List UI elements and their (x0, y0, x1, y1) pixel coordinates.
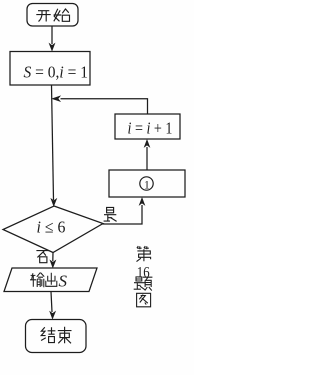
wire init->decision (main vertical) (52, 85, 54, 200)
label 开始 text strokes (36, 9, 69, 22)
arrowhead up into circled1 box (139, 198, 144, 205)
caption char 第 (137, 246, 151, 262)
svg-text:i = i + 1: i = i + 1 (128, 118, 173, 137)
label 结束 text strokes (41, 327, 71, 344)
svg-text:S = 0,i = 1: S = 0,i = 1 (24, 63, 89, 82)
caption char 图 (137, 293, 151, 307)
process box circled 1 (109, 170, 185, 197)
yes branch wire (103, 205, 143, 224)
loopback wire from i=i+1 to main line (61, 99, 148, 114)
svg-text:S: S (59, 271, 68, 290)
io parallelogram 输出S (4, 268, 97, 292)
process box S=0,i=1 (10, 52, 90, 86)
wire io->end (51, 292, 52, 313)
label 输出 text strokes (30, 273, 57, 288)
svg-text:i ≤ 6: i ≤ 6 (37, 217, 66, 236)
label 是 (yes) (104, 207, 117, 221)
arrowhead up into i=i+1 (144, 140, 149, 147)
arrowhead into init box (49, 44, 55, 51)
arrowhead pointing left into junction (52, 96, 60, 101)
arrowhead into parallelogram (50, 260, 56, 267)
caption char 题 (134, 277, 153, 291)
process box i=i+1 (115, 114, 180, 139)
arrowhead into decision top (51, 199, 57, 206)
svg-text:16: 16 (137, 264, 150, 281)
wire start->init (51, 26, 53, 44)
decision diamond i<=6 (3, 206, 103, 253)
start terminator 开始 (27, 4, 78, 27)
arrowhead into end box (50, 312, 56, 319)
svg-text:1: 1 (144, 180, 150, 192)
label 否 (no) (36, 251, 49, 263)
circled 1 symbol (140, 177, 153, 190)
end terminator 结束 (26, 320, 87, 353)
no branch wire (52, 253, 54, 262)
wire circled1 -> i=i+1 (146, 147, 148, 170)
